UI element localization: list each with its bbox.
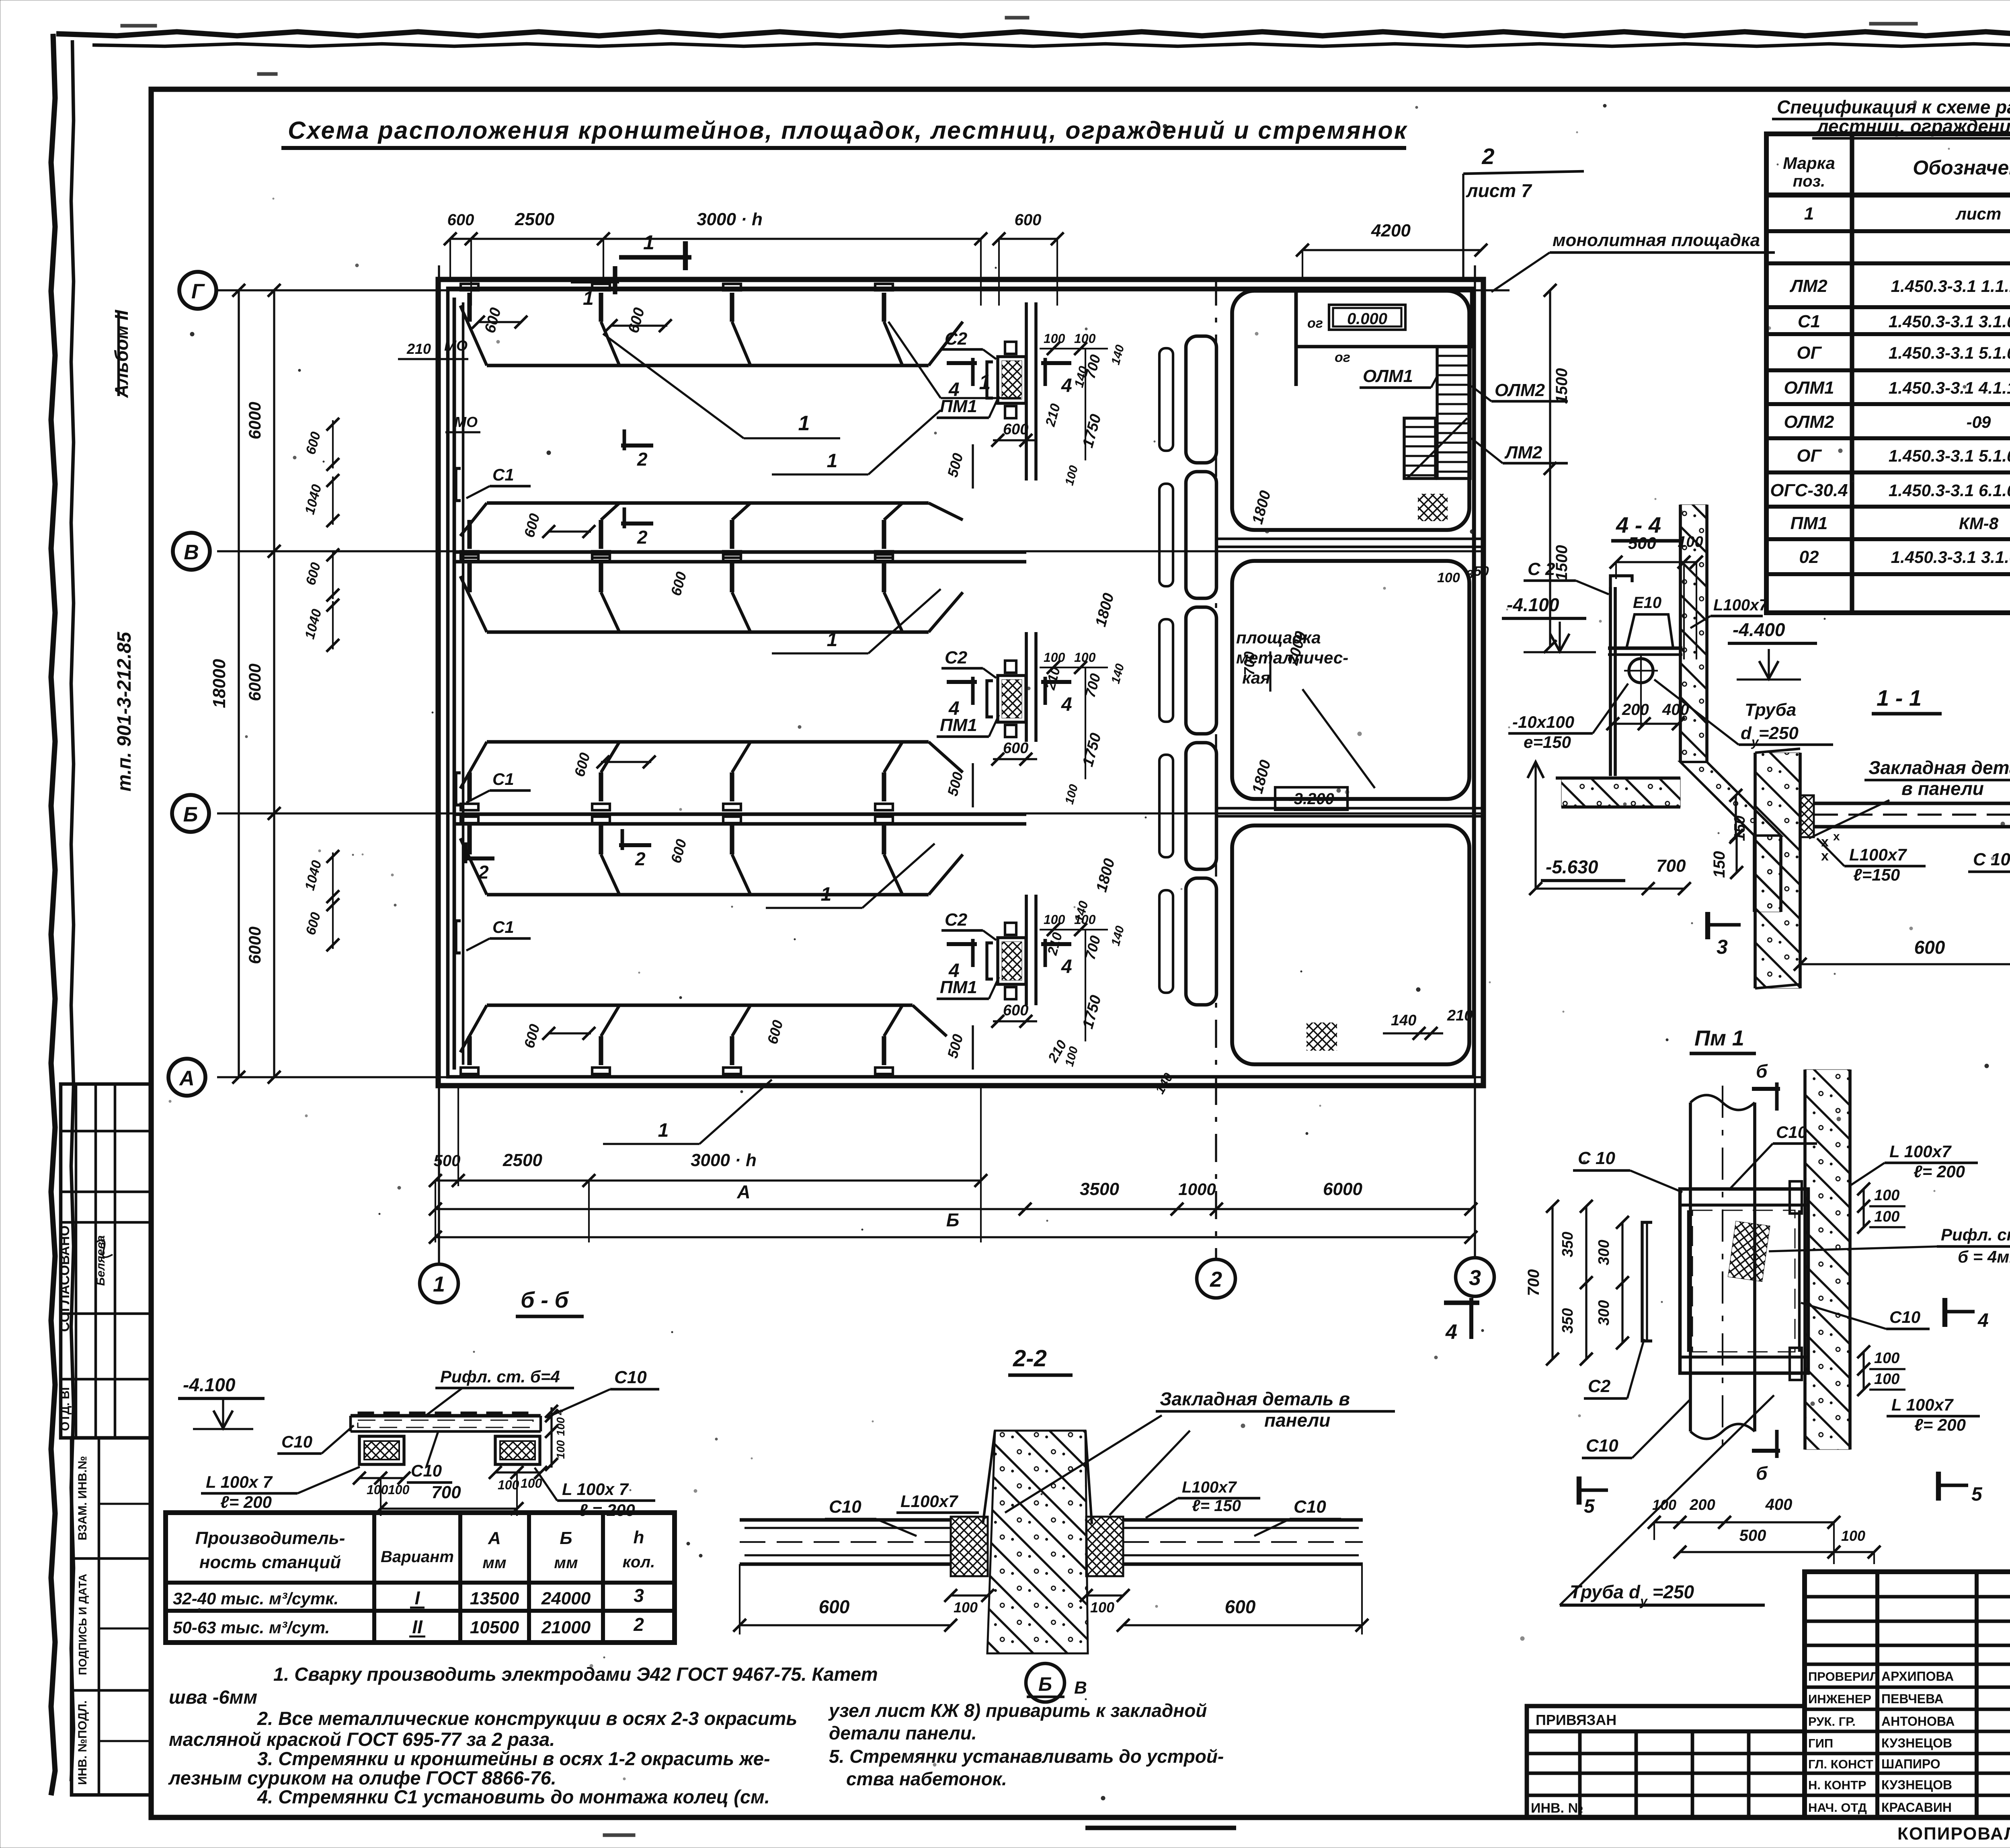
svg-text:100: 100 — [1044, 650, 1065, 665]
svg-text:1: 1 — [798, 412, 810, 435]
svg-text:1: 1 — [658, 1120, 669, 1141]
Пм1 С2 bracket — [1642, 1222, 1652, 1341]
svg-text:КУЗНЕЦОВ: КУЗНЕЦОВ — [1881, 1736, 1952, 1750]
svg-text:1.450.3-3.1 6.1.0.1.0-03: 1.450.3-3.1 6.1.0.1.0-03 — [1889, 481, 2010, 500]
svg-text:ℓ= 200: ℓ= 200 — [220, 1493, 272, 1511]
svg-text:КРАСАВИН: КРАСАВИН — [1881, 1800, 1952, 1815]
svg-text:II: II — [412, 1616, 423, 1637]
svg-text:масляной краской ГОСТ 695-77 з: масляной краской ГОСТ 695-77 за 2 раза. — [169, 1729, 555, 1750]
svg-text:детали панели.: детали панели. — [829, 1723, 977, 1743]
svg-text:3000 · h: 3000 · h — [691, 1150, 757, 1170]
svg-text:лист 7: лист 7 — [1466, 180, 1532, 201]
svg-text:ОЛМ2: ОЛМ2 — [1495, 380, 1545, 400]
tank band above А — [487, 1004, 913, 1007]
title block — [1805, 1572, 2010, 1817]
4-4 wall — [1680, 505, 1707, 762]
bottom paper edge mark — [1085, 1825, 1236, 1830]
svg-text:4: 4 — [1061, 694, 1072, 715]
6-6 100 dims — [359, 1477, 404, 1479]
svg-text:h: h — [634, 1528, 644, 1547]
svg-text:4: 4 — [553, 1409, 565, 1415]
sidebar upper table — [61, 1084, 151, 1438]
svg-text:С10: С10 — [1889, 1308, 1920, 1326]
svg-text:100: 100 — [954, 1599, 978, 1616]
6-6 platform bar — [351, 1414, 541, 1418]
6-6 channels — [359, 1436, 404, 1464]
svg-text:ПРОВЕРИЛ: ПРОВЕРИЛ — [1808, 1669, 1878, 1684]
svg-text:Альбом II: Альбом II — [111, 310, 132, 398]
left inner wall line — [453, 298, 456, 1070]
svg-text:1: 1 — [1804, 204, 1814, 224]
2-2 pier — [987, 1431, 1088, 1653]
svg-text:600: 600 — [1914, 937, 1945, 958]
svg-text:2: 2 — [635, 848, 646, 869]
svg-text:210: 210 — [1447, 1007, 1473, 1024]
svg-text:Закладная деталь в: Закладная деталь в — [1160, 1388, 1350, 1409]
svg-text:L 100x 7: L 100x 7 — [206, 1472, 273, 1491]
svg-text:500: 500 — [1739, 1527, 1766, 1544]
svg-text:100: 100 — [521, 1476, 542, 1491]
svg-text:поз.: поз. — [1793, 172, 1825, 190]
svg-text:5: 5 — [1971, 1484, 1983, 1505]
stairs flight left — [1404, 418, 1436, 478]
svg-text:-5.630: -5.630 — [1546, 856, 1598, 877]
svg-text:лезным суриком на олифе ГОСТ 8: лезным суриком на олифе ГОСТ 8866-76. — [168, 1767, 556, 1788]
svg-text:3500: 3500 — [1080, 1179, 1119, 1199]
wall double line at Б — [454, 813, 1026, 816]
svg-text:4: 4 — [948, 698, 960, 719]
stairs flight right — [1437, 347, 1470, 478]
svg-text:Закладная деталь: Закладная деталь — [1868, 757, 2010, 778]
svg-text:узел лист КЖ 8) приварить к: узел лист КЖ 8) приварить к закладной — [828, 1700, 1207, 1721]
tank band below Б — [487, 893, 929, 897]
svg-text:б: б — [1756, 1463, 1768, 1484]
Пм1 platform frame — [1680, 1189, 1808, 1373]
svg-text:С1: С1 — [492, 770, 514, 788]
plan outer wall — [438, 279, 1483, 1086]
svg-text:L100x7: L100x7 — [1713, 596, 1768, 614]
svg-text:6000: 6000 — [245, 402, 264, 439]
svg-text:Марка: Марка — [1783, 154, 1835, 172]
svg-text:2500: 2500 — [515, 209, 554, 229]
right room 1 — [1232, 291, 1469, 530]
rough scanned page border left — [51, 34, 55, 1795]
svg-text:4: 4 — [948, 379, 960, 400]
Пм1 pipe — [1689, 1103, 1692, 1431]
svg-text:ог: ог — [1335, 350, 1350, 365]
svg-text:1: 1 — [433, 1272, 445, 1296]
svg-text:С10: С10 — [1776, 1123, 1807, 1142]
svg-text:-09: -09 — [1967, 413, 1991, 431]
svg-text:1: 1 — [583, 288, 594, 309]
svg-text:С1: С1 — [1798, 312, 1820, 331]
svg-text:350: 350 — [1559, 1232, 1576, 1257]
4-4 level up mark — [1528, 762, 1544, 778]
svg-text:L 100x 7: L 100x 7 — [562, 1480, 629, 1499]
svg-text:В: В — [184, 541, 199, 564]
svg-text:1.450.3-3.1 3.1.01.0-01: 1.450.3-3.1 3.1.01.0-01 — [1891, 548, 2010, 567]
right room 3 — [1232, 825, 1469, 1064]
svg-text:2500: 2500 — [503, 1150, 542, 1170]
svg-text:e=150: e=150 — [1524, 733, 1571, 752]
svg-text:Обозначение: Обозначение — [1913, 156, 2010, 179]
svg-text:КОПИРОВАЛ: АНТИПОВА: КОПИРОВАЛ: АНТИПОВА — [1897, 1824, 2010, 1844]
svg-text:КУЗНЕЦОВ: КУЗНЕЦОВ — [1881, 1778, 1952, 1792]
tank band below Г — [487, 364, 929, 368]
svg-text:100: 100 — [554, 1440, 567, 1459]
4-4 top dims — [1616, 561, 1696, 563]
svg-text:ность станций: ность станций — [199, 1552, 341, 1572]
left dim chain 6000s — [273, 290, 275, 1077]
svg-text:ВЗАМ. ИНВ.№: ВЗАМ. ИНВ.№ — [76, 1456, 89, 1540]
svg-text:С10: С10 — [281, 1432, 312, 1451]
svg-text:2-2: 2-2 — [1013, 1345, 1047, 1372]
spec table grid — [1766, 134, 2010, 613]
left dim 18000 — [238, 290, 240, 1077]
svg-text:ЛМ2: ЛМ2 — [1789, 276, 1827, 296]
privyazan table — [1527, 1706, 1805, 1817]
svg-text:1000: 1000 — [1178, 1180, 1216, 1199]
svg-text:МО: МО — [454, 414, 478, 430]
svg-text:I: I — [415, 1587, 420, 1608]
svg-text:100: 100 — [1874, 1350, 1899, 1367]
svg-text:5. Стремянки устанавливать до: 5. Стремянки устанавливать до устрой- — [829, 1746, 1224, 1767]
svg-text:500: 500 — [434, 1152, 461, 1170]
svg-text:МО: МО — [444, 337, 468, 354]
svg-text:1. Сварку производить электрод: 1. Сварку производить электродами Э42 ГО… — [273, 1663, 878, 1685]
svg-text:ИНЖЕНЕР: ИНЖЕНЕР — [1808, 1692, 1871, 1706]
svg-text:Б: Б — [946, 1209, 960, 1230]
svg-text:1: 1 — [827, 450, 838, 472]
svg-text:100: 100 — [1874, 1371, 1899, 1388]
svg-text:210: 210 — [406, 341, 431, 357]
right room 2 — [1232, 561, 1469, 799]
Пм1 left dims — [1551, 1206, 1553, 1359]
svg-text:ОЛМ1: ОЛМ1 — [1363, 366, 1413, 386]
svg-text:В: В — [1074, 1678, 1087, 1698]
svg-text:ℓ=150: ℓ=150 — [1853, 865, 1900, 884]
svg-text:3. Стремянки и кронштейны в ос: 3. Стремянки и кронштейны в осях 1-2 окр… — [257, 1748, 770, 1769]
svg-text:2: 2 — [1210, 1267, 1222, 1292]
svg-text:L100x7: L100x7 — [900, 1492, 958, 1511]
svg-text:1.450.3-3.1 3.1.0.1.0-07: 1.450.3-3.1 3.1.0.1.0-07 — [1889, 312, 2010, 331]
svg-text:Рифл. ст.: Рифл. ст. — [1941, 1225, 2010, 1244]
hatch mark top right — [1418, 494, 1448, 521]
tank band above Б — [487, 740, 929, 744]
svg-text:300: 300 — [1596, 1300, 1612, 1325]
svg-text:монолитная площадка: монолитная площадка — [1553, 230, 1760, 250]
2-2 beams — [740, 1518, 951, 1522]
svg-text:700: 700 — [1656, 856, 1686, 876]
svg-text:L 100x7: L 100x7 — [1889, 1142, 1952, 1161]
4-4 ladder stile — [1609, 587, 1612, 776]
svg-text:600: 600 — [1003, 1002, 1028, 1019]
svg-text:-3.200: -3.200 — [1288, 790, 1334, 808]
axis circle Б — [172, 795, 209, 832]
4-4 floor slab — [1561, 778, 1680, 807]
platform ПМ1 cluster — [998, 938, 1026, 984]
axis circle 2 — [1197, 1259, 1235, 1298]
svg-text:кол.: кол. — [623, 1553, 655, 1571]
svg-text:С2: С2 — [945, 910, 968, 930]
axis circle Г — [179, 272, 216, 309]
svg-text:лист: лист — [1955, 204, 2002, 223]
svg-text:Б: Б — [1038, 1674, 1052, 1695]
svg-text:ПМ1: ПМ1 — [1791, 513, 1828, 533]
Пм1 hatch cross — [1728, 1221, 1770, 1282]
svg-text:4: 4 — [948, 960, 960, 981]
right dim 1500s — [1549, 290, 1551, 647]
svg-text:ИНВ. №ПОДЛ.: ИНВ. №ПОДЛ. — [76, 1700, 89, 1785]
2-2 embed plates — [951, 1517, 988, 1576]
svg-text:32-40 тыс. м³/сутк.: 32-40 тыс. м³/сутк. — [173, 1589, 338, 1608]
svg-text:С10: С10 — [614, 1368, 647, 1387]
svg-text:1.450.3-3.1 4.1.1.1.0-03: 1.450.3-3.1 4.1.1.1.0-03 — [1889, 378, 2010, 397]
svg-text:150: 150 — [1711, 851, 1728, 878]
svg-text:Рифл. ст. б=4: Рифл. ст. б=4 — [440, 1367, 560, 1386]
svg-text:С 10: С 10 — [1578, 1148, 1615, 1168]
svg-text:L 100x7: L 100x7 — [1891, 1395, 1954, 1414]
svg-text:мм: мм — [482, 1554, 506, 1572]
svg-text:С1: С1 — [492, 465, 514, 484]
svg-text:18000: 18000 — [209, 659, 229, 708]
axis column line 1 — [438, 265, 440, 1263]
svg-text:4200: 4200 — [1371, 221, 1411, 240]
svg-text:Г: Г — [191, 280, 205, 303]
svg-text:1: 1 — [979, 371, 991, 394]
svg-text:100: 100 — [1090, 1599, 1114, 1616]
svg-text:3000 · h: 3000 · h — [697, 209, 763, 229]
svg-text:100: 100 — [388, 1483, 410, 1497]
section mark 2 labels — [621, 444, 653, 448]
1-1 panel — [1755, 753, 1800, 988]
svg-text:21000: 21000 — [541, 1618, 591, 1637]
svg-text:4: 4 — [1061, 375, 1072, 396]
svg-text:А: А — [488, 1528, 501, 1548]
section mark 4 below axis 3 — [1444, 1300, 1479, 1305]
tank end wall x2560 lower — [1025, 895, 1028, 1005]
svg-text:100: 100 — [498, 1478, 519, 1492]
svg-text:300: 300 — [1596, 1240, 1612, 1265]
svg-text:6000: 6000 — [245, 926, 264, 964]
svg-text:1.450.3-3.1 1.1.1.00-15: 1.450.3-3.1 1.1.1.00-15 — [1891, 277, 2010, 296]
1-1 embed plate — [1800, 795, 1814, 837]
cross wall lines right part — [1218, 538, 1483, 540]
svg-text:100: 100 — [367, 1483, 388, 1497]
svg-text:-10x100: -10x100 — [1512, 713, 1574, 731]
svg-text:140: 140 — [1391, 1012, 1416, 1029]
svg-text:ПЕВЧЕВА: ПЕВЧЕВА — [1881, 1692, 1944, 1706]
svg-text:400: 400 — [1765, 1496, 1793, 1513]
svg-text:700: 700 — [1241, 651, 1257, 676]
4-4 pipe circle — [1629, 659, 1653, 683]
axis circle В — [173, 533, 210, 570]
svg-text:1500: 1500 — [1553, 368, 1571, 404]
svg-text:4: 4 — [1445, 1320, 1457, 1344]
svg-text:10500: 10500 — [470, 1618, 519, 1637]
hatch mark bottom right — [1306, 1023, 1337, 1051]
plan axis А line — [217, 1076, 1483, 1078]
svg-text:ℓ= 150: ℓ= 150 — [1192, 1497, 1241, 1515]
axis column line 3 — [1474, 265, 1476, 1258]
svg-text:500: 500 — [1628, 534, 1656, 552]
svg-text:Н. КОНТР: Н. КОНТР — [1808, 1778, 1866, 1792]
С1 bracket labels left wall — [456, 468, 461, 501]
tank end wall x2560 middle — [1025, 632, 1028, 742]
svg-text:Вариант: Вариант — [381, 1548, 454, 1566]
1-1 bracket beam — [1814, 802, 2010, 805]
svg-text:4. Стремянки С1 установить до: 4. Стремянки С1 установить до монтажа ко… — [257, 1786, 770, 1807]
svg-text:200: 200 — [1622, 701, 1649, 719]
2-2 node Б circle — [1026, 1663, 1064, 1702]
svg-text:С10: С10 — [829, 1497, 861, 1517]
svg-text:шва -6мм: шва -6мм — [169, 1686, 257, 1708]
svg-text:02: 02 — [1799, 547, 1819, 567]
6-6 700 dim — [381, 1507, 517, 1509]
svg-text:Схема расположения кронштейнов: Схема расположения кронштейнов, площадок… — [288, 117, 1408, 144]
svg-text:700: 700 — [1525, 1269, 1542, 1296]
svg-text:Труба: Труба — [1745, 700, 1796, 720]
svg-text:L100x7: L100x7 — [1849, 845, 1907, 864]
svg-text:ОГ: ОГ — [1797, 343, 1822, 363]
svg-text:x: x — [1833, 830, 1840, 843]
variant table — [166, 1513, 675, 1643]
svg-text:2: 2 — [478, 862, 489, 883]
svg-text:С1: С1 — [492, 918, 514, 936]
leader 1 labels top band — [603, 334, 744, 438]
svg-text:ГЛ. КОНСТ: ГЛ. КОНСТ — [1808, 1757, 1873, 1771]
svg-text:50-63 тыс. м³/сут.: 50-63 тыс. м³/сут. — [173, 1618, 330, 1637]
svg-text:2. Все металлические конструк: 2. Все металлические конструкции в осях … — [257, 1708, 797, 1729]
rough scanned page border top — [56, 32, 2010, 36]
Пм1 Т5 mark right — [1936, 1472, 1941, 1501]
svg-text:4: 4 — [1977, 1310, 1989, 1331]
svg-text:ШАПИРО: ШАПИРО — [1881, 1757, 1940, 1771]
svg-text:С2: С2 — [945, 329, 968, 349]
leader 1 labels misc — [772, 473, 868, 475]
svg-text:2: 2 — [1481, 144, 1494, 169]
svg-text:100: 100 — [554, 1417, 567, 1436]
6-6 small right dims — [550, 1407, 552, 1468]
0.000 level box — [1329, 305, 1405, 330]
svg-text:3: 3 — [634, 1585, 644, 1606]
1-1 600 dim — [1800, 963, 2010, 965]
svg-text:6000: 6000 — [245, 663, 264, 701]
svg-text:600: 600 — [1003, 421, 1028, 438]
svg-text:13500: 13500 — [470, 1589, 519, 1608]
axis circle А — [168, 1059, 205, 1096]
wall double line at В — [454, 550, 1026, 554]
svg-text:АРХИПОВА: АРХИПОВА — [1881, 1669, 1954, 1684]
svg-text:600: 600 — [1003, 740, 1028, 757]
Пм1 б section marks — [1752, 1087, 1780, 1091]
svg-text:б = 4мм: б = 4мм — [1958, 1247, 2010, 1266]
svg-text:ℓ = 200: ℓ = 200 — [579, 1501, 635, 1519]
slot channels column — [1186, 336, 1216, 463]
svg-text:2: 2 — [637, 449, 648, 470]
svg-text:x: x — [1821, 848, 1829, 864]
svg-text:600: 600 — [447, 211, 474, 229]
plan axis В line — [217, 550, 1483, 552]
4-4 chute — [1680, 762, 1781, 836]
bottom dim chain row2 А — [435, 1208, 1471, 1210]
svg-text:ОГС-30.4: ОГС-30.4 — [1770, 480, 1848, 500]
svg-text:24000: 24000 — [541, 1589, 591, 1608]
axis circle 3 — [1456, 1258, 1494, 1296]
svg-text:3: 3 — [1717, 936, 1728, 958]
2-2 100 dims — [951, 1594, 988, 1596]
1-1 section 3 marks — [1705, 912, 1710, 939]
svg-text:4: 4 — [1061, 956, 1072, 977]
2-2 600 dims — [740, 1624, 951, 1626]
svg-text:ℓ= 200: ℓ= 200 — [1914, 1415, 1966, 1434]
svg-text:ПОДПИСЬ И ДАТА: ПОДПИСЬ И ДАТА — [76, 1574, 89, 1675]
svg-text:Б: Б — [560, 1528, 572, 1548]
svg-text:С10: С10 — [1586, 1436, 1618, 1456]
tank end wall x2560 upper — [1025, 302, 1028, 480]
bottom dim chain row1 — [435, 1179, 981, 1181]
svg-text:А: А — [736, 1181, 750, 1202]
svg-text:Производитель-: Производитель- — [195, 1528, 345, 1548]
svg-text:6000: 6000 — [1323, 1179, 1362, 1199]
600 bracket dims band1 — [478, 321, 521, 323]
Пм1 bottom dims — [1654, 1521, 1834, 1523]
svg-text:СОГЛАСОВАНО: СОГЛАСОВАНО — [57, 1226, 72, 1332]
svg-text:ОЛМ1: ОЛМ1 — [1784, 378, 1834, 398]
svg-text:350: 350 — [1559, 1308, 1576, 1333]
svg-text:ПРИВЯЗАН: ПРИВЯЗАН — [1536, 1712, 1616, 1728]
axis column line 2 — [1215, 277, 1217, 1259]
svg-text:2: 2 — [633, 1614, 644, 1635]
svg-text:б: б — [1756, 1061, 1768, 1082]
svg-text:1.450.3-3.1 5.1.0.1.0-03: 1.450.3-3.1 5.1.0.1.0-03 — [1889, 343, 2010, 362]
svg-text:т.п. 901-3-212.85: т.п. 901-3-212.85 — [114, 631, 135, 791]
svg-text:С10: С10 — [1294, 1497, 1326, 1517]
svg-text:1 - 1: 1 - 1 — [1877, 685, 1922, 710]
svg-text:L100x7: L100x7 — [1182, 1478, 1237, 1496]
svg-text:ℓ= 200: ℓ= 200 — [1914, 1162, 1965, 1181]
svg-text:100: 100 — [1044, 331, 1065, 346]
svg-text:1: 1 — [827, 629, 838, 651]
section mark 1 top — [619, 255, 691, 259]
svg-text:А: А — [178, 1067, 195, 1090]
svg-text:ог: ог — [1307, 316, 1323, 331]
Пм1 5 mark left — [1577, 1476, 1581, 1505]
axis circle 1 — [420, 1264, 458, 1303]
svg-text:1.450.3-3.1 5.1.0.1.0-09: 1.450.3-3.1 5.1.0.1.0-09 — [1889, 446, 2010, 465]
svg-text:100: 100 — [1437, 570, 1460, 585]
svg-text:ЛМ2: ЛМ2 — [1504, 443, 1542, 462]
svg-text:-4.100: -4.100 — [1507, 594, 1559, 615]
sidebar lower table — [72, 1438, 151, 1795]
svg-text:1: 1 — [643, 231, 654, 254]
svg-text:ОГ: ОГ — [1797, 446, 1822, 466]
svg-text:Е10: Е10 — [1633, 594, 1661, 612]
bottom dim chain row3 Б — [435, 1236, 1471, 1238]
svg-text:2: 2 — [637, 527, 648, 548]
svg-text:100: 100 — [1874, 1187, 1899, 1204]
4-4 lower wall — [1754, 836, 1781, 912]
svg-text:600: 600 — [1015, 211, 1042, 229]
svg-text:ОТД. ВГ: ОТД. ВГ — [59, 1384, 72, 1431]
svg-text:ИНВ. №: ИНВ. № — [1531, 1801, 1583, 1816]
svg-text:панели: панели — [1264, 1410, 1330, 1431]
svg-text:С 2: С 2 — [1528, 559, 1555, 579]
plan axis Б line — [217, 812, 1483, 814]
svg-text:600: 600 — [819, 1596, 850, 1617]
svg-text:Б: Б — [183, 803, 198, 826]
platform ПМ1 cluster — [998, 676, 1026, 722]
